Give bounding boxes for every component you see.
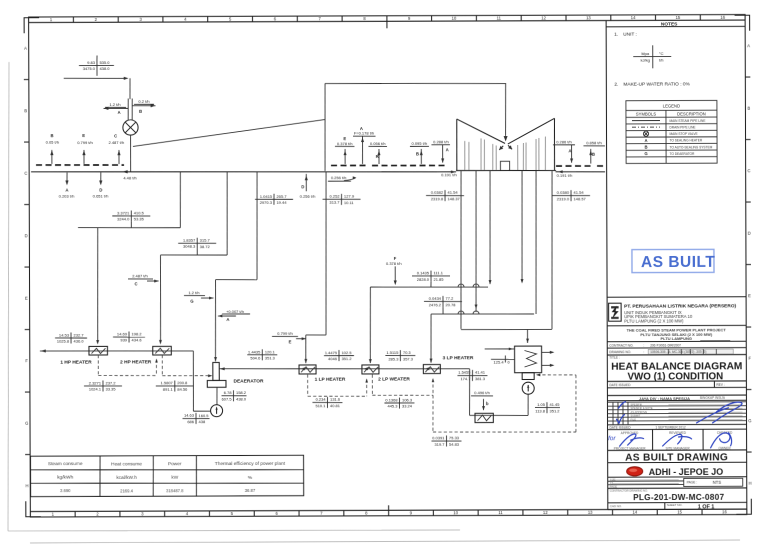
svg-text:DRAWING NO.: DRAWING NO. — [609, 350, 631, 354]
3LP drain to condenser circuit dashed — [432, 395, 434, 432]
svg-text:410.5: 410.5 — [134, 210, 145, 215]
LP feedwater line — [299, 368, 470, 369]
svg-text:0.056 t/h: 0.056 t/h — [370, 141, 386, 146]
svg-text:3475.0: 3475.0 — [83, 66, 96, 71]
svg-text:NTS: NTS — [713, 480, 722, 485]
label lbl-0.0391 — [431, 440, 461, 442]
svg-text:41.41: 41.41 — [475, 370, 486, 375]
svg-text:0.05 t/h: 0.05 t/h — [46, 140, 59, 145]
svg-text:REV :: REV : — [716, 383, 724, 387]
performance table — [30, 455, 303, 497]
svg-text:10: 10 — [453, 510, 458, 515]
svg-text:A3: A3 — [610, 481, 614, 485]
svg-text:kg/kWh: kg/kWh — [57, 475, 73, 481]
svg-text:DATE ISSUED: DATE ISSUED — [610, 426, 632, 430]
svg-text:20.78: 20.78 — [446, 302, 457, 307]
svg-text:1.2 t/h: 1.2 t/h — [109, 102, 120, 107]
svg-text:0.858 t/h: 0.858 t/h — [586, 140, 602, 145]
svg-text:0.288 t/h: 0.288 t/h — [433, 139, 449, 144]
svg-text:B: B — [645, 145, 648, 150]
seal E into 1LP line — [296, 338, 306, 340]
dashed drain header left — [36, 164, 124, 167]
label lbl-0.1368 — [384, 402, 414, 404]
svg-text:C: C — [748, 168, 751, 173]
svg-text:C: C — [114, 133, 117, 138]
main stop valve inlet pipe (double wall) — [127, 98, 129, 120]
boiler feed pump — [216, 387, 218, 404]
svg-text:FILE: FILE — [631, 417, 637, 421]
svg-text:3.3721: 3.3721 — [117, 210, 130, 215]
HP drain cascade dashed — [97, 355, 99, 376]
svg-text:B: B — [24, 108, 27, 113]
svg-text:2319.8: 2319.8 — [431, 196, 444, 201]
svg-text:127.9: 127.9 — [344, 194, 355, 199]
svg-text:G: G — [190, 298, 193, 303]
status rows — [607, 402, 746, 425]
label lbl-0.234 — [312, 401, 342, 403]
svg-text:F: F — [394, 256, 397, 261]
svg-text:113.8: 113.8 — [535, 408, 546, 413]
svg-text:0.799 t/h: 0.799 t/h — [277, 331, 293, 336]
svg-text:H: H — [749, 481, 752, 486]
svg-text:40.81: 40.81 — [330, 403, 341, 408]
svg-text:1.0415: 1.0415 — [260, 194, 273, 199]
svg-text:351.3: 351.3 — [265, 355, 276, 360]
svg-text:148.57: 148.57 — [574, 196, 587, 201]
svg-text:285.3: 285.3 — [388, 356, 399, 361]
svg-text:kcal/kW.h: kcal/kW.h — [116, 475, 137, 481]
svg-text:1.4475: 1.4475 — [325, 350, 338, 355]
svg-text:AS BUILT: AS BUILT — [641, 254, 715, 271]
svg-text:2 HP HEATER: 2 HP HEATER — [120, 359, 152, 365]
svg-text:12: 12 — [541, 15, 546, 20]
svg-text:DRAIN PIPE LINE: DRAIN PIPE LINE — [669, 125, 695, 129]
label lbl-1.4475 — [324, 355, 354, 357]
unit cross symbol — [633, 55, 671, 57]
svg-text:CONTRACT NO.: CONTRACT NO. — [609, 343, 633, 347]
svg-text:A: A — [568, 149, 571, 154]
extraction to deaerator — [256, 172, 259, 280]
svg-text:1.5807: 1.5807 — [161, 380, 174, 385]
svg-text:DEAERATOR: DEAERATOR — [233, 378, 263, 384]
svg-text:A: A — [24, 46, 27, 51]
title panel left border — [606, 20, 608, 509]
svg-text:B: B — [416, 151, 419, 156]
svg-text:°C: °C — [659, 51, 664, 56]
svg-text:kJ/kg: kJ/kg — [641, 57, 650, 62]
svg-text:11: 11 — [498, 510, 503, 515]
svg-text:54.83: 54.83 — [449, 442, 460, 447]
solid extraction header line — [31, 170, 456, 173]
svg-text:357.3: 357.3 — [403, 356, 414, 361]
svg-text:PLTU LAMPUNG (2 X 100 MW): PLTU LAMPUNG (2 X 100 MW) — [624, 319, 684, 324]
svg-text:G: G — [644, 151, 647, 156]
svg-text:131.6: 131.6 — [330, 397, 341, 402]
3 LP heater — [423, 365, 440, 374]
svg-text:0.286 t/h: 0.286 t/h — [556, 139, 572, 144]
exhaust ducts to condenser — [460, 171, 461, 329]
svg-text:3048.3: 3048.3 — [183, 244, 196, 249]
svg-text:B: B — [747, 106, 750, 111]
svg-text:0.496 t/h: 0.496 t/h — [474, 390, 490, 395]
svg-text:14.63: 14.63 — [184, 413, 195, 418]
extraction to 3 LP heater — [535, 171, 538, 314]
svg-text:445.3: 445.3 — [387, 404, 398, 409]
svg-text:232.7: 232.7 — [74, 332, 85, 337]
svg-text:36.87: 36.87 — [245, 488, 256, 493]
extraction to 1 HP heater — [179, 172, 181, 228]
condensate pump — [522, 382, 534, 394]
seal steam arrows right group — [571, 145, 573, 162]
svg-text:0.651 t/h: 0.651 t/h — [93, 194, 109, 199]
dashed drain header right — [556, 165, 593, 167]
svg-text:DATE ISSUED: DATE ISSUED — [609, 383, 631, 387]
top ruler ticks — [29, 15, 746, 30]
svg-text:125.4: 125.4 — [493, 360, 504, 365]
svg-text:SHEET NO.: SHEET NO. — [667, 503, 683, 507]
svg-text:PT. PERUSAHAAN LISTRIK NEGARA: PT. PERUSAHAAN LISTRIK NEGARA (PERSERO) — [624, 303, 736, 309]
svg-text:t/h: t/h — [659, 57, 663, 62]
svg-text:B: B — [50, 133, 53, 138]
seal C into 2HP line — [147, 280, 159, 282]
seal steam arrows left group — [51, 150, 53, 164]
seal steam arrows middle group — [344, 149, 346, 164]
LP turbine right casing — [508, 118, 555, 144]
svg-text:b: b — [486, 401, 489, 406]
HP turbine sloped line — [133, 120, 325, 147]
svg-text:TO DEAERATOR: TO DEAERATOR — [670, 152, 696, 156]
svg-text:0.191 t/h: 0.191 t/h — [557, 173, 573, 178]
svg-text:E: E — [25, 296, 28, 301]
svg-text:MAIN STOP VALVE: MAIN STOP VALVE — [670, 132, 698, 136]
svg-text:+0.007 t/h: +0.007 t/h — [226, 309, 244, 314]
feed line arrows — [301, 367, 305, 370]
main steam pipe to stop valve — [64, 77, 127, 79]
svg-text:1025.8: 1025.8 — [57, 339, 70, 344]
svg-text:for: for — [608, 435, 616, 442]
label lbl-0.252 — [323, 198, 361, 200]
svg-text:SPESIFIK: SPESIFIK — [630, 402, 642, 406]
svg-text:D: D — [301, 184, 304, 189]
ADHI JEPOE JO row with red logo — [627, 467, 643, 476]
svg-text:A: A — [226, 317, 229, 322]
1 LP heater — [299, 365, 316, 374]
svg-text:84.56: 84.56 — [177, 387, 188, 392]
label lbl-0.1435 — [412, 275, 450, 277]
svg-text:15: 15 — [677, 510, 682, 515]
svg-text:237.2: 237.2 — [105, 380, 116, 385]
svg-text:535.0: 535.0 — [99, 60, 110, 65]
svg-text:2.: 2. — [614, 82, 618, 88]
svg-text:2169.4: 2169.4 — [120, 488, 133, 493]
svg-text:3244.0: 3244.0 — [117, 217, 130, 222]
svg-text:148.37: 148.37 — [448, 196, 461, 201]
svg-text:1 OF 1: 1 OF 1 — [698, 505, 715, 511]
svg-text:351.2: 351.2 — [549, 408, 560, 413]
svg-text:D: D — [99, 187, 102, 192]
svg-text:102.5: 102.5 — [341, 350, 352, 355]
svg-text:0.191 t/h: 0.191 t/h — [441, 172, 457, 177]
legend table — [626, 100, 717, 163]
label lbl-6.78 — [222, 395, 247, 397]
bottom ruler ticks — [30, 504, 747, 517]
svg-text:PLG-201-DW-MC-0807: PLG-201-DW-MC-0807 — [633, 493, 724, 502]
svg-text:LEGEND: LEGEND — [663, 104, 680, 109]
approval signature columns — [653, 429, 704, 450]
svg-text:G: G — [748, 418, 751, 423]
svg-text:607.5: 607.5 — [222, 396, 233, 401]
svg-text:0.252: 0.252 — [330, 194, 341, 199]
svg-text:TO AUTO-SEALING SYSTEM: TO AUTO-SEALING SYSTEM — [670, 145, 713, 149]
svg-text:0.0382: 0.0382 — [431, 190, 444, 195]
svg-text:0.0391: 0.0391 — [432, 435, 445, 440]
svg-text:0.2 t/h: 0.2 t/h — [138, 99, 149, 104]
svg-text:1.: 1. — [614, 32, 618, 38]
svg-text:315.7: 315.7 — [200, 238, 211, 243]
svg-text:Thermal efficiency of power pl: Thermal efficiency of power plant — [215, 461, 286, 467]
extraction to 1 LP heater with D branch — [325, 172, 326, 335]
svg-text:10506-305 -M- MC-304 (305/3) -: 10506-305 -M- MC-304 (305/3) -305 (5) — [650, 350, 706, 354]
svg-text:14: 14 — [632, 510, 637, 515]
svg-text:B: B — [139, 109, 142, 114]
0.256 t/h takeoff right — [344, 178, 356, 181]
LP turbine admission split arrows — [504, 136, 508, 141]
svg-text:11: 11 — [497, 16, 502, 21]
svg-text:158.2: 158.2 — [236, 390, 247, 395]
svg-text:A: A — [65, 188, 68, 193]
svg-text:A: A — [747, 43, 750, 48]
svg-text:E: E — [748, 293, 751, 298]
svg-text:16: 16 — [722, 510, 727, 515]
svg-text:0.203 t/h: 0.203 t/h — [59, 194, 75, 199]
2 LP heater — [362, 365, 379, 374]
svg-text:891.1: 891.1 — [163, 387, 174, 392]
svg-text:2476.2: 2476.2 — [429, 302, 442, 307]
svg-text:CAD NO.: CAD NO. — [610, 504, 622, 508]
svg-text:2319.0: 2319.0 — [557, 196, 570, 201]
condenser hotwell — [522, 373, 534, 380]
1 HP heater — [89, 346, 108, 355]
svg-text:0.799 t/h: 0.799 t/h — [77, 140, 93, 145]
svg-text:C: C — [24, 171, 27, 176]
condenser CW outlets — [542, 351, 553, 353]
label lbl-1.5807 — [156, 385, 194, 387]
label lbl-1.5115 — [385, 354, 415, 356]
svg-text:160.5: 160.5 — [198, 413, 209, 418]
LP turbine left casing — [457, 119, 505, 144]
svg-text:Mpa: Mpa — [641, 51, 650, 56]
seal F into 2LP extraction — [394, 266, 396, 283]
svg-text:21.85: 21.85 — [434, 277, 445, 282]
svg-text:NOTES: NOTES — [661, 21, 678, 27]
svg-text:70.3: 70.3 — [403, 350, 412, 355]
svg-text:41.54: 41.54 — [574, 190, 585, 195]
label lbl-14.63 — [183, 417, 210, 419]
svg-text:B: B — [592, 152, 595, 157]
svg-text:14: 14 — [631, 15, 636, 20]
LP turbine gland box — [500, 161, 509, 170]
svg-text:1 HP HEATER: 1 HP HEATER — [60, 359, 92, 365]
svg-text:1 LP HEATER: 1 LP HEATER — [315, 376, 346, 382]
svg-text:1.5115: 1.5115 — [386, 350, 399, 355]
svg-text:3.690: 3.690 — [60, 488, 71, 493]
extraction to 2 LP heater — [489, 171, 492, 284]
crossover pipe down to LP turbine — [504, 83, 506, 136]
valve outlet pipe down to header (double wall) — [130, 135, 132, 172]
svg-text:R: R — [376, 154, 379, 159]
condensate line to gland condenser — [527, 394, 529, 415]
svg-text:F: F — [25, 358, 28, 363]
BFP discharge to HP heaters — [193, 410, 210, 412]
svg-text:436.0: 436.0 — [74, 339, 85, 344]
label lbl-0.0380 — [552, 194, 590, 196]
svg-text:10.11: 10.11 — [344, 200, 355, 205]
PLN logo — [609, 303, 622, 321]
svg-text:206 PJ/061-DIR/2007: 206 PJ/061-DIR/2007 — [650, 343, 681, 347]
svg-text:C: C — [135, 281, 138, 286]
svg-text:13: 13 — [588, 510, 593, 515]
svg-text:1 SEPTEMBER 2012: 1 SEPTEMBER 2012 — [655, 425, 686, 429]
main stop valve circle — [123, 120, 138, 135]
label lbl-1.5455 — [457, 374, 487, 376]
svg-text:381.3: 381.3 — [475, 376, 486, 381]
NOTES strip — [606, 25, 745, 27]
svg-text::: : — [643, 343, 644, 347]
svg-text:2 LP WEATER: 2 LP WEATER — [378, 376, 410, 382]
svg-text:438.0: 438.0 — [236, 396, 247, 401]
label lbl-14.69 — [113, 336, 145, 338]
svg-text:%: % — [248, 475, 253, 481]
label ext1 — [112, 215, 150, 217]
svg-text:0.378 t/h: 0.378 t/h — [337, 141, 353, 146]
svg-text:D: D — [25, 233, 28, 238]
downward arrows below header left — [66, 173, 68, 184]
svg-text:E: E — [289, 340, 292, 345]
svg-text:1.8357: 1.8357 — [183, 238, 196, 243]
crossing hops on 287 line — [458, 284, 464, 287]
svg-text:A: A — [446, 147, 449, 152]
svg-text:G: G — [25, 421, 28, 426]
svg-text:313.7: 313.7 — [329, 200, 340, 205]
svg-text:351.2: 351.2 — [341, 356, 352, 361]
svg-text:0.234: 0.234 — [316, 397, 327, 402]
svg-text:0.1435: 0.1435 — [417, 270, 430, 275]
svg-text::: : — [643, 350, 644, 354]
legend valve symbol — [643, 131, 648, 136]
corner crop marks — [24, 18, 39, 34]
svg-text:2.487 t/h: 2.487 t/h — [132, 273, 148, 278]
seal A into deaerator line — [218, 315, 236, 317]
svg-text:939: 939 — [120, 338, 127, 343]
svg-text:F=0.178 t/h: F=0.178 t/h — [354, 131, 374, 136]
blue scribble right — [712, 402, 742, 423]
svg-text:A: A — [645, 138, 648, 143]
4.48 t/h flow arrow on header — [123, 170, 128, 173]
label lbl-0.0382 — [426, 194, 464, 196]
HP feedwater line — [40, 350, 193, 351]
svg-text:1.4435: 1.4435 — [248, 349, 261, 354]
svg-text:6.78: 6.78 — [224, 390, 233, 395]
svg-text:106.3: 106.3 — [402, 397, 413, 402]
label lbl-0.0434 — [424, 300, 462, 302]
extraction to 2 HP heater — [226, 172, 229, 255]
svg-text:D: D — [748, 231, 751, 236]
svg-text:1024.1: 1024.1 — [89, 387, 102, 392]
svg-text:12: 12 — [543, 510, 548, 515]
svg-text:265.7: 265.7 — [277, 194, 288, 199]
svg-text:SUBMIT: SUBMIT — [630, 414, 640, 418]
svg-text:2.3271: 2.3271 — [89, 380, 102, 385]
label lbl-1.4435 — [247, 354, 277, 356]
label lbl-14.53 — [55, 337, 87, 339]
svg-text:MAKE-UP WATER RATIO : 0%: MAKE-UP WATER RATIO : 0% — [623, 81, 690, 87]
svg-text:2.487 t/h: 2.487 t/h — [109, 140, 125, 145]
svg-text:0.256 t/h: 0.256 t/h — [331, 175, 347, 180]
svg-text:41.54: 41.54 — [448, 190, 459, 195]
svg-text:kW: kW — [171, 475, 178, 481]
svg-text:Steam consume: Steam consume — [48, 461, 83, 467]
svg-text:4046: 4046 — [328, 356, 338, 361]
AS BUILT blue stamp — [632, 249, 714, 272]
label lbl-1.05 — [535, 406, 560, 408]
svg-text:VWO (1) CONDITION: VWO (1) CONDITION — [627, 371, 723, 382]
svg-text:3 LP HEATER: 3 LP HEATER — [443, 355, 474, 361]
svg-text:AS APPROVE: AS APPROVE — [630, 410, 647, 414]
svg-text:E: E — [82, 133, 85, 138]
svg-text:14.53: 14.53 — [59, 332, 70, 337]
svg-text:510.1: 510.1 — [315, 403, 326, 408]
LP drain cascade dashed — [307, 374, 309, 396]
svg-text:111.1: 111.1 — [433, 270, 443, 275]
svg-text:13: 13 — [586, 15, 591, 20]
svg-text:0.1368: 0.1368 — [385, 397, 398, 402]
svg-text:438: 438 — [199, 419, 206, 424]
svg-text:PAGE :: PAGE : — [687, 480, 698, 484]
svg-text:14.69: 14.69 — [117, 331, 128, 336]
gland steam condenser — [475, 413, 493, 422]
seal leak-off A arrow left — [104, 107, 129, 109]
svg-text:504.6: 504.6 — [250, 355, 261, 360]
svg-text:F: F — [748, 356, 751, 361]
svg-text:438.0: 438.0 — [99, 66, 110, 71]
svg-text:Power: Power — [168, 461, 182, 467]
svg-text:0.256 t/h: 0.256 t/h — [300, 194, 316, 199]
LP turbine base line — [456, 169, 556, 172]
label lbl-2.3271 — [84, 385, 122, 387]
svg-text:TO SEALING HEATER: TO SEALING HEATER — [670, 139, 703, 143]
svg-text:SYMBOLS: SYMBOLS — [636, 112, 656, 117]
scale rows — [608, 481, 684, 485]
svg-text:19.44: 19.44 — [276, 200, 287, 205]
svg-text:0.0380: 0.0380 — [557, 190, 570, 195]
svg-text:2828.0: 2828.0 — [417, 277, 430, 282]
svg-text:BINGKAP INSIJA: BINGKAP INSIJA — [700, 396, 726, 400]
svg-text:33.24: 33.24 — [402, 404, 413, 409]
svg-text:OWNER: OWNER — [718, 446, 731, 450]
svg-text:38.72: 38.72 — [200, 244, 211, 249]
deaerator inlet from LP feed line — [220, 367, 301, 370]
svg-text:434.6: 434.6 — [132, 338, 143, 343]
svg-text:SPESIFIK & NOTE: SPESIFIK & NOTE — [630, 406, 652, 410]
svg-text:SITE MANAGER: SITE MANAGER — [666, 446, 691, 450]
title block horizontal dividers — [607, 297, 747, 510]
label main steam 9.83/535.0 — [79, 64, 114, 66]
svg-text:0.0434: 0.0434 — [429, 296, 442, 301]
seal G into deaerator line — [201, 297, 213, 299]
svg-text:1.2 t/h: 1.2 t/h — [188, 290, 199, 295]
svg-text:41.45: 41.45 — [549, 402, 560, 407]
svg-text:0.378 t/h: 0.378 t/h — [386, 261, 402, 266]
